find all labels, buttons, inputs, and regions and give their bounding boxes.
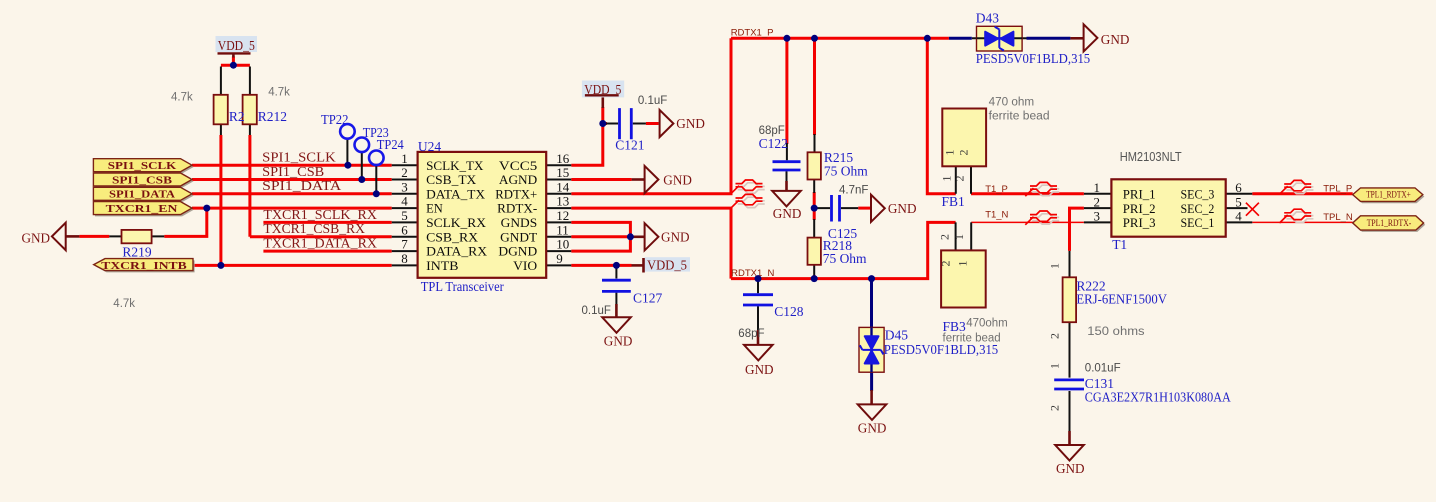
svg-text:7: 7 [401, 237, 408, 252]
svg-text:1: 1 [1094, 180, 1101, 195]
svg-text:D43: D43 [976, 10, 999, 25]
svg-text:GND: GND [676, 116, 705, 131]
svg-text:EN: EN [426, 202, 443, 216]
svg-text:DGND: DGND [498, 245, 537, 259]
svg-text:CSB_RX: CSB_RX [426, 230, 478, 244]
svg-text:SEC_3: SEC_3 [1181, 188, 1215, 202]
svg-text:4.7k: 4.7k [268, 86, 290, 98]
svg-text:SPI1_DATA: SPI1_DATA [109, 189, 175, 201]
svg-text:C122: C122 [759, 136, 788, 151]
svg-text:470ohm: 470ohm [966, 317, 1008, 329]
svg-text:1: 1 [956, 261, 970, 267]
svg-text:TP24: TP24 [377, 137, 404, 152]
svg-text:150 ohms: 150 ohms [1087, 326, 1145, 338]
svg-text:14: 14 [556, 179, 570, 194]
svg-text:GND: GND [1101, 32, 1130, 47]
svg-text:T1: T1 [1112, 237, 1127, 252]
svg-text:SEC_1: SEC_1 [1181, 216, 1215, 230]
svg-text:TPL_N: TPL_N [1323, 212, 1353, 223]
svg-text:4: 4 [1235, 209, 1242, 224]
svg-text:3: 3 [401, 179, 408, 194]
svg-text:FB1: FB1 [942, 194, 965, 209]
svg-text:TPL_P: TPL_P [1323, 184, 1352, 195]
svg-text:AGND: AGND [499, 173, 537, 187]
svg-text:PESD5V0F1BLD,315: PESD5V0F1BLD,315 [976, 51, 1091, 66]
svg-text:2: 2 [1048, 333, 1062, 339]
svg-text:TXCR1_DATA_RX: TXCR1_DATA_RX [263, 236, 377, 251]
svg-text:0.1uF: 0.1uF [582, 305, 611, 317]
svg-text:9: 9 [556, 251, 563, 266]
svg-text:GND: GND [773, 206, 802, 221]
svg-text:CGA3E2X7R1H103K080AA: CGA3E2X7R1H103K080AA [1085, 390, 1231, 405]
svg-text:SEC_2: SEC_2 [1181, 202, 1215, 216]
svg-text:C121: C121 [615, 138, 644, 153]
svg-text:0.1uF: 0.1uF [638, 95, 667, 107]
svg-text:SPI1_SCLK: SPI1_SCLK [108, 160, 177, 172]
svg-text:75 Ohm: 75 Ohm [823, 251, 867, 266]
svg-text:PRI_3: PRI_3 [1123, 216, 1156, 230]
svg-text:1: 1 [1048, 263, 1062, 269]
svg-text:GNDT: GNDT [500, 230, 537, 244]
svg-text:TXCR1_CSB_RX: TXCR1_CSB_RX [263, 222, 365, 237]
svg-text:SPI1_SCLK: SPI1_SCLK [262, 151, 336, 166]
svg-text:TXCR1_SCLK_RX: TXCR1_SCLK_RX [263, 208, 377, 223]
svg-text:PRI_2: PRI_2 [1123, 202, 1156, 216]
svg-text:RDTX-: RDTX- [497, 202, 537, 216]
svg-text:68pF: 68pF [759, 125, 785, 137]
svg-text:R2: R2 [229, 109, 245, 124]
svg-text:470 ohm: 470 ohm [989, 97, 1035, 109]
svg-text:DATA_RX: DATA_RX [426, 245, 487, 259]
svg-text:D45: D45 [885, 328, 908, 343]
svg-text:PRI_1: PRI_1 [1123, 188, 1156, 202]
svg-text:SPI1_CSB: SPI1_CSB [112, 174, 173, 186]
svg-text:2: 2 [401, 165, 408, 180]
svg-text:C127: C127 [633, 291, 663, 306]
svg-text:TPL1_RDTX-: TPL1_RDTX- [1367, 219, 1412, 229]
svg-text:RDTX1_P: RDTX1_P [731, 28, 774, 39]
svg-text:RDTX1_N: RDTX1_N [731, 268, 774, 279]
svg-text:GND: GND [1056, 461, 1085, 476]
svg-text:GND: GND [888, 201, 917, 216]
svg-text:TPL Transceiver: TPL Transceiver [421, 279, 504, 294]
svg-text:GND: GND [858, 420, 887, 435]
svg-text:16: 16 [556, 151, 570, 166]
svg-text:1: 1 [952, 234, 966, 240]
svg-text:SPI1_DATA: SPI1_DATA [262, 179, 342, 194]
svg-text:GND: GND [22, 230, 51, 245]
svg-text:6: 6 [401, 222, 408, 237]
svg-text:R219: R219 [122, 244, 152, 259]
svg-text:68pF: 68pF [738, 328, 764, 340]
svg-text:2: 2 [953, 176, 967, 182]
svg-text:GND: GND [745, 362, 774, 377]
svg-text:ferrite bead: ferrite bead [989, 111, 1050, 123]
svg-text:ERJ-6ENF1500V: ERJ-6ENF1500V [1076, 291, 1167, 306]
svg-text:1: 1 [401, 151, 408, 166]
svg-text:GND: GND [661, 230, 690, 245]
svg-text:2: 2 [1048, 405, 1062, 411]
svg-text:4.7k: 4.7k [171, 91, 193, 103]
svg-text:2: 2 [957, 150, 971, 156]
svg-text:INTB: INTB [426, 259, 458, 273]
svg-text:DATA_TX: DATA_TX [426, 187, 485, 201]
svg-text:SCLK_RX: SCLK_RX [426, 216, 486, 230]
svg-text:2: 2 [1094, 194, 1101, 209]
svg-text:3: 3 [1094, 209, 1101, 224]
svg-text:VIO: VIO [513, 259, 537, 273]
svg-text:6: 6 [1235, 180, 1242, 195]
svg-text:4.7k: 4.7k [113, 298, 135, 310]
svg-text:SPI1_CSB: SPI1_CSB [262, 165, 324, 180]
svg-text:T1_P: T1_P [985, 184, 1008, 195]
svg-text:15: 15 [556, 165, 569, 180]
svg-text:SCLK_TX: SCLK_TX [426, 159, 483, 173]
svg-text:12: 12 [556, 208, 569, 223]
svg-text:2: 2 [939, 261, 953, 267]
svg-text:4.7nF: 4.7nF [839, 185, 868, 197]
svg-text:0.01uF: 0.01uF [1085, 362, 1121, 374]
svg-text:T1_N: T1_N [985, 209, 1008, 220]
svg-text:8: 8 [401, 251, 408, 266]
svg-text:CSB_TX: CSB_TX [426, 173, 476, 187]
svg-text:4: 4 [401, 194, 408, 209]
svg-text:R215: R215 [824, 150, 854, 165]
svg-text:TXCR1_EN: TXCR1_EN [106, 203, 178, 215]
svg-text:ferrite bead: ferrite bead [943, 333, 1001, 345]
svg-text:FB3: FB3 [943, 319, 967, 334]
svg-text:VDD_5: VDD_5 [218, 38, 255, 53]
svg-text:RDTX+: RDTX+ [495, 187, 537, 201]
svg-text:GNDS: GNDS [501, 216, 538, 230]
svg-text:75 Ohm: 75 Ohm [824, 164, 868, 179]
svg-text:GND: GND [663, 172, 692, 187]
svg-text:VCC5: VCC5 [499, 159, 537, 173]
svg-text:C128: C128 [774, 304, 804, 319]
svg-text:11: 11 [556, 222, 569, 237]
svg-text:VDD_5: VDD_5 [647, 257, 687, 272]
svg-text:13: 13 [556, 194, 569, 209]
svg-text:10: 10 [556, 237, 569, 252]
svg-text:1: 1 [943, 150, 957, 156]
svg-text:1: 1 [940, 176, 954, 182]
svg-text:TPL1_RDTX+: TPL1_RDTX+ [1366, 190, 1411, 200]
svg-text:TXCR1_INTB: TXCR1_INTB [101, 260, 187, 272]
svg-text:HM2103NLT: HM2103NLT [1120, 150, 1182, 164]
svg-text:5: 5 [401, 208, 408, 223]
svg-text:5: 5 [1235, 194, 1242, 209]
svg-text:GND: GND [604, 334, 633, 349]
svg-text:1: 1 [1048, 363, 1062, 369]
svg-text:2: 2 [938, 234, 952, 240]
svg-text:R212: R212 [258, 109, 287, 124]
svg-text:U24: U24 [418, 139, 441, 154]
